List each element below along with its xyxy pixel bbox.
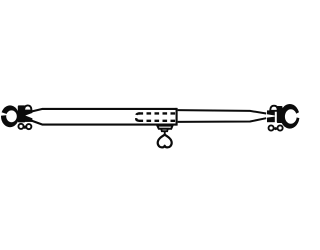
- left clamp block: [18, 105, 26, 122]
- left clamp shank: [25, 110, 33, 122]
- wing screw step 2: [161, 129, 168, 131]
- right bottom ring 1: [269, 125, 274, 130]
- dashed insert top: [139, 112, 177, 114]
- left C-ring: [1, 105, 19, 127]
- left dome: [24, 105, 31, 110]
- wing screw stem: [164, 131, 166, 135]
- wing screw step 1: [157, 126, 172, 129]
- fat tube right edge: [176, 108, 178, 126]
- fat tube top line with left taper: [32, 109, 177, 112]
- left bottom ring 1: [18, 124, 23, 129]
- right clamp mouth: [267, 114, 275, 117]
- fat tube bottom line with left taper: [32, 121, 177, 125]
- dashed insert left edge: [136, 113, 140, 120]
- left bottom dot: [23, 126, 26, 129]
- left bottom ring 2: [26, 124, 31, 129]
- wing nut heart: [158, 135, 172, 148]
- thin tube top line with right taper: [178, 110, 267, 113]
- right clamp shank: [267, 110, 275, 122]
- right bottom dot: [274, 127, 277, 130]
- right C-ring: [280, 104, 299, 129]
- right dome: [270, 106, 277, 111]
- dashed insert bottom: [139, 120, 177, 122]
- left clamp mouth: [25, 113, 32, 119]
- right clamp block: [277, 106, 283, 123]
- thin tube bottom line with right taper: [178, 118, 267, 122]
- right bottom ring 2: [278, 125, 283, 130]
